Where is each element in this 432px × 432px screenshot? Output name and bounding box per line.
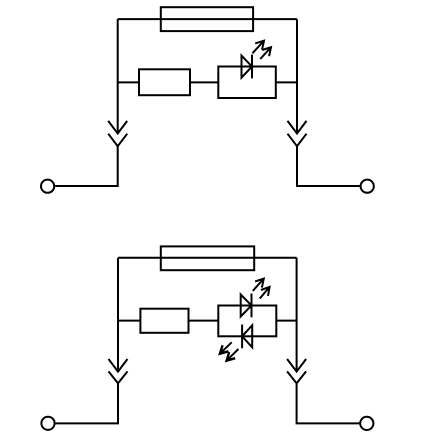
fuse F1 bbox=[161, 7, 253, 31]
terminal circle right circuit 1 bbox=[361, 180, 374, 193]
wire right lower vertical circuit 1 bbox=[297, 146, 360, 186]
LED diode triangle circuit 1 bbox=[242, 56, 253, 78]
resistor circuit 2 bbox=[140, 309, 188, 333]
wire right lower vertical circuit 2 bbox=[297, 383, 360, 423]
LED emission arrow 2 upper circuit 2 bbox=[260, 287, 270, 299]
LED cathode bar circuit 1 bbox=[251, 55, 253, 79]
fuse F2 bbox=[161, 246, 254, 270]
terminal circle left circuit 2 bbox=[41, 417, 54, 430]
wire middle branch circuit 1 bbox=[118, 81, 297, 83]
wire right vertical circuit 1 bbox=[296, 19, 298, 133]
plug contact arrowhead left circuit 2 bbox=[109, 359, 128, 372]
socket chevron right circuit 2 bbox=[287, 371, 306, 383]
socket chevron right circuit 1 bbox=[288, 134, 307, 147]
plug contact arrowhead right circuit 2 bbox=[287, 359, 306, 372]
resistor circuit 1 bbox=[139, 69, 190, 95]
wire top bus circuit 2 bbox=[118, 257, 297, 259]
LED cathode bar upper circuit 2 bbox=[251, 294, 253, 318]
terminal circle right circuit 2 bbox=[360, 417, 373, 430]
wire left vertical circuit 2 bbox=[117, 258, 119, 372]
LED emission arrow 1 lower circuit 2 bbox=[220, 342, 232, 353]
LED emission arrow 1 circuit 1 bbox=[252, 41, 264, 54]
wire right vertical circuit 2 bbox=[296, 258, 298, 372]
terminal circle left circuit 1 bbox=[41, 180, 54, 193]
wire middle branch circuit 2 bbox=[118, 320, 297, 322]
plug contact arrowhead left circuit 1 bbox=[108, 121, 127, 134]
wire left lower vertical circuit 1 bbox=[55, 146, 117, 186]
plug contact arrowhead right circuit 1 bbox=[288, 121, 307, 134]
LED emission arrow 2 lower circuit 2 bbox=[227, 349, 239, 361]
wire top bus circuit 1 bbox=[118, 18, 297, 20]
wire through fuse F1 bbox=[161, 18, 253, 20]
socket chevron left circuit 2 bbox=[109, 371, 128, 383]
LED body box circuit 2 bbox=[218, 306, 276, 337]
LED body box circuit 1 bbox=[218, 67, 275, 99]
LED cathode bar lower circuit 2 bbox=[241, 325, 243, 349]
LED emission arrow 1 upper circuit 2 bbox=[253, 279, 264, 291]
socket chevron left circuit 1 bbox=[108, 134, 127, 147]
LED diode triangle lower circuit 2 bbox=[242, 325, 252, 347]
wire left vertical circuit 1 bbox=[117, 19, 119, 133]
wire left lower vertical circuit 2 bbox=[56, 383, 118, 423]
wire through fuse F2 bbox=[161, 257, 254, 259]
LED emission arrow 2 circuit 1 bbox=[260, 47, 271, 59]
LED diode triangle upper circuit 2 bbox=[241, 295, 252, 317]
